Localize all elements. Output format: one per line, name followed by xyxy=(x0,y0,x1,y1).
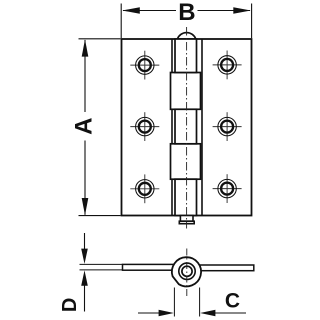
side view centerline xyxy=(186,249,188,298)
dimension C right arrowhead xyxy=(200,310,215,317)
screw hole top-left xyxy=(130,51,159,80)
knuckle top cap arc xyxy=(177,33,195,39)
side view pin outer circle xyxy=(179,263,195,279)
screw hole bottom-left xyxy=(130,174,159,203)
dimension B line left segment xyxy=(123,10,176,12)
side view left leaf xyxy=(123,264,181,270)
svg-text:B: B xyxy=(178,0,195,26)
knuckle segment 1 xyxy=(175,39,197,73)
dimension B right arrowhead xyxy=(233,7,251,14)
dimension A top arrowhead xyxy=(82,39,89,56)
screw hole middle-right xyxy=(213,112,242,141)
side view pin inner circle xyxy=(182,266,192,276)
dimension C left arrowhead xyxy=(159,310,174,317)
dimension B left arrowhead xyxy=(122,7,140,14)
knuckle segment 3 xyxy=(175,109,197,144)
svg-text:D: D xyxy=(59,298,81,312)
side view right leaf xyxy=(196,265,254,271)
dimension A line upper segment xyxy=(84,40,86,112)
svg-text:A: A xyxy=(71,118,98,135)
dimension D upper arrowhead xyxy=(81,249,88,264)
knuckle segment 2 xyxy=(171,73,201,110)
hinge pin tip xyxy=(180,216,193,222)
screw hole top-right xyxy=(213,51,242,80)
right leaf inner edge xyxy=(201,39,203,216)
dimension B extension line right xyxy=(251,4,253,39)
side view: dimension D projection lines xyxy=(80,263,123,265)
side view barrel outer circle with curl cut notch xyxy=(172,257,201,286)
svg-text:C: C xyxy=(225,290,240,313)
dimension D line upper tail xyxy=(84,233,86,250)
screw hole middle-left xyxy=(130,112,159,141)
hinge plate outline (front view) xyxy=(122,39,252,216)
dimension A bottom arrowhead xyxy=(82,198,89,215)
dimension B line right segment xyxy=(198,10,251,12)
dimension C left tail xyxy=(138,312,160,314)
left leaf inner edge xyxy=(171,39,173,216)
dimension A extension line top xyxy=(79,38,121,40)
dimension A extension line bottom xyxy=(79,215,121,217)
dimension D lower tail xyxy=(84,285,86,312)
knuckle segment 4 xyxy=(171,144,201,179)
hinge pin tip flange xyxy=(179,221,194,224)
knuckle segment 5 xyxy=(175,179,197,215)
dimension C extension line left xyxy=(173,288,175,317)
dimension B extension line left xyxy=(120,4,122,39)
dimension C right tail xyxy=(215,312,247,314)
dimension A line lower segment xyxy=(84,141,86,215)
screw hole bottom-right xyxy=(213,174,242,203)
knuckle centerline xyxy=(186,27,188,229)
dimension C extension line right xyxy=(199,288,201,317)
dimension D lower arrowhead xyxy=(81,270,88,285)
